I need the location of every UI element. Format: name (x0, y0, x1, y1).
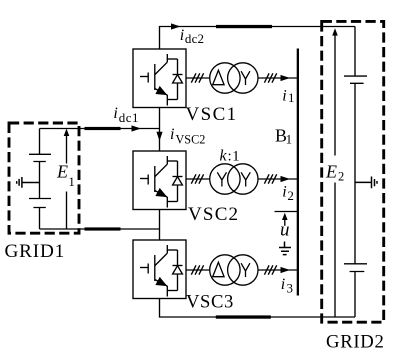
IGBT with diode U1 (140, 54, 183, 106)
svg-text:E: E (325, 162, 337, 182)
three-phase slashes (VSC3 left) (191, 265, 203, 274)
arrow i_dc1 (132, 125, 142, 131)
GRID1 dashed box (9, 123, 79, 233)
battery cell E1 upper (29, 154, 51, 161)
svg-text:i: i (113, 105, 117, 122)
wire: vertical between VSC1 and VSC2 (159, 108, 161, 152)
wye symbol T2 right (241, 172, 250, 186)
wye symbol T1 (241, 71, 250, 85)
svg-text:E: E (56, 162, 68, 182)
VSC2 box (133, 151, 186, 210)
svg-text:GRID2: GRID2 (326, 332, 385, 353)
svg-text:VSC2: VSC2 (176, 133, 206, 147)
transformer T3 delta winding circle (210, 255, 240, 285)
three-phase slashes (VSC2 left) (191, 174, 203, 183)
svg-text:u: u (280, 220, 290, 241)
svg-text:i: i (282, 184, 286, 201)
battery cell E2 lower (344, 264, 367, 272)
arrow i3 (281, 267, 291, 273)
wire: bottom DC link from VSC3 to GRID2 (160, 299, 356, 318)
svg-text:i: i (282, 87, 286, 104)
arrow u (up) (284, 215, 286, 226)
svg-text:k: k (220, 148, 228, 165)
arrow on top wire (i_dc2 direction) (171, 23, 181, 29)
transformer T1 delta winding circle (210, 63, 240, 93)
svg-text:1: 1 (288, 90, 295, 105)
svg-text:3: 3 (287, 280, 294, 295)
svg-text:VSC1: VSC1 (186, 104, 238, 125)
bus B1 (297, 49, 299, 296)
delta symbol T1 (213, 70, 224, 84)
three-phase slashes (VSC3 right) (264, 265, 276, 274)
svg-text:dc2: dc2 (185, 31, 204, 46)
IGBT with diode U3 (140, 245, 183, 297)
three-phase slashes (VSC1 left) (191, 73, 203, 82)
arrow i1 (281, 75, 291, 81)
svg-text:i: i (180, 27, 184, 44)
transformer T1 wye winding circle (228, 63, 258, 93)
wire: u measurement stub off bus (275, 211, 299, 213)
wire: VSC3 AC output to bus (186, 269, 298, 271)
svg-text:GRID1: GRID1 (5, 241, 66, 262)
GRID2 dashed box (322, 21, 384, 322)
delta symbol T3 (213, 262, 224, 276)
battery cell E2 upper (344, 76, 367, 83)
ground for u (279, 242, 291, 255)
wire: top DC link from left column to GRID2 (160, 27, 356, 50)
wire: GRID1 bottom wire (40, 228, 160, 230)
svg-text::1: :1 (228, 148, 241, 164)
busbar on top wire (216, 25, 272, 28)
wire: GRID2 source conductor (354, 27, 356, 318)
transformer T2 wye winding circle (left) (210, 164, 240, 194)
busbar on bottom wire (216, 315, 271, 318)
three-phase slashes (VSC2 right) (264, 174, 276, 183)
wire: GRID1 source conductor (39, 129, 41, 230)
svg-text:1: 1 (286, 132, 293, 147)
ground (GRID1, sideways) (17, 177, 40, 188)
svg-text:2: 2 (338, 170, 344, 184)
three-phase slashes (VSC1 right) (264, 73, 276, 82)
svg-text:dc1: dc1 (119, 110, 139, 125)
busbar on GRID1 top wire (85, 127, 121, 130)
wire: VSC1 AC output to bus (186, 77, 298, 79)
svg-text:i: i (281, 276, 285, 293)
svg-text:1: 1 (69, 175, 75, 189)
busbar on GRID1 bottom wire (85, 227, 121, 230)
arrow i2 (281, 176, 291, 182)
arrow i_VSC2 (down) on vertical wire (156, 132, 162, 141)
svg-text:i: i (170, 126, 174, 143)
wire: GRID1 top wire (i_dc1) (40, 128, 160, 130)
IGBT with diode U2 (140, 156, 183, 208)
ground (GRID2, sideways) (355, 177, 377, 189)
transformer T3 wye winding circle (228, 255, 258, 285)
wire: vertical between VSC2 and VSC3 (159, 210, 161, 241)
wye symbol T3 (241, 263, 250, 277)
arrow E1 (up) (66, 134, 68, 229)
svg-text:2: 2 (287, 188, 294, 203)
VSC1 box (133, 49, 186, 108)
transformer T2 wye winding circle (right) (228, 164, 258, 194)
svg-text:VSC3: VSC3 (186, 292, 234, 313)
battery cell E1 lower (29, 199, 51, 208)
svg-text:VSC2: VSC2 (188, 204, 239, 225)
arrow E2 (up) (334, 34, 336, 317)
wire: VSC2 AC output to bus (186, 178, 298, 180)
VSC3 box (133, 240, 186, 299)
wye symbol T2 left (217, 172, 226, 186)
